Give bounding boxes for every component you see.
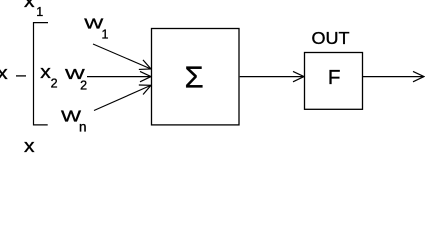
node x1 bbox=[24, 0, 43, 19]
bracket of input vector bbox=[34, 23, 49, 125]
label W2 bbox=[65, 67, 87, 92]
svg-text:x: x bbox=[0, 62, 8, 83]
wire arrow input 3 (weight Wn) bbox=[94, 85, 151, 110]
svg-text:n: n bbox=[79, 120, 87, 135]
node x2 bbox=[40, 61, 57, 91]
label Wn bbox=[61, 109, 87, 135]
svg-text:x: x bbox=[24, 0, 35, 11]
svg-text:Σ: Σ bbox=[185, 59, 204, 94]
svg-text:F: F bbox=[328, 66, 341, 89]
svg-text:OUT: OUT bbox=[312, 28, 350, 48]
svg-text:x: x bbox=[24, 135, 35, 154]
wire arrow sum to F bbox=[240, 76, 304, 78]
wire output arrow bbox=[363, 76, 424, 78]
svg-text:1: 1 bbox=[36, 5, 43, 19]
wire arrow input 1 (weight W1) bbox=[93, 44, 151, 69]
svg-text:1: 1 bbox=[102, 27, 109, 41]
wire arrow input 2 (weight W2) bbox=[87, 76, 151, 78]
summation box U1 bbox=[152, 29, 240, 125]
wire dash from x to bracket bbox=[16, 75, 26, 77]
svg-text:2: 2 bbox=[51, 77, 58, 91]
svg-text:2: 2 bbox=[80, 78, 87, 92]
activation box F bbox=[305, 53, 363, 110]
label W1 bbox=[84, 17, 108, 42]
